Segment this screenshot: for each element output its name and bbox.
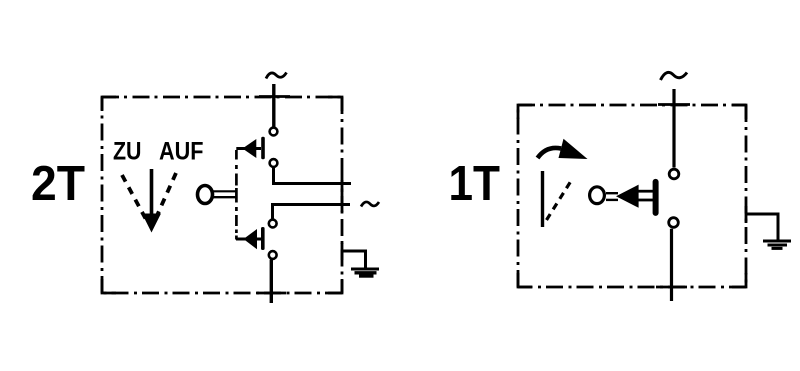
wire from bottom contact down 1T	[670, 229, 673, 301]
pushbutton knob	[198, 186, 213, 204]
border dash at top wire crossing	[259, 95, 290, 98]
wire from tilde to top contact	[272, 84, 275, 127]
rotation arrow head	[559, 139, 588, 159]
top switch actuator arm	[236, 147, 261, 150]
ground symbol 1T	[763, 241, 791, 248]
pushbutton knob 1T	[590, 187, 605, 204]
ground wire 2T	[342, 251, 366, 268]
border dash at ground wire crossing 1T	[745, 206, 748, 223]
actuator link (double line)	[638, 190, 653, 193]
top switch arrow head	[243, 139, 257, 158]
svg-text:ZU: ZU	[113, 138, 142, 166]
box 2T corner ticks	[102, 97, 342, 293]
actuator dash-dot link	[235, 150, 238, 240]
AC tilde top 2T	[266, 73, 287, 79]
actuator arrow head 1T	[616, 185, 639, 208]
pushbutton rod (double line)	[212, 190, 237, 192]
border dash at bottom wire crossing	[257, 292, 286, 295]
border dash at top wire crossing 1T	[658, 103, 690, 106]
enclosure box 2T (dash-dot)	[102, 97, 342, 293]
contact circle bottom 1T	[669, 218, 679, 228]
bottom switch arrow head	[244, 229, 258, 249]
contact circle C2	[270, 159, 278, 167]
contact circle C3	[269, 220, 277, 228]
bottom switch actuator arm	[236, 238, 261, 241]
wire from C3 to right terminal	[273, 205, 351, 219]
border dash at bottom wire crossing 1T	[656, 286, 687, 289]
AC tilde right 2T	[361, 202, 379, 207]
ground symbol 2T	[351, 269, 379, 276]
wire from C4 down through box	[270, 260, 273, 304]
wire from C2 to right terminal	[274, 168, 352, 184]
top switch bridge bar	[261, 137, 265, 159]
border dash at ground wire crossing	[341, 243, 344, 260]
wire from tilde to top contact 1T	[672, 89, 675, 168]
lever dashed position	[547, 179, 573, 221]
box 1T corner ticks	[518, 105, 746, 287]
pushbutton rod 1T (double line)	[606, 192, 618, 194]
AC tilde top 1T	[661, 72, 688, 80]
svg-text:AUF: AUF	[159, 138, 204, 166]
bottom switch bridge bar	[261, 227, 265, 250]
enclosure box 1T (dash-dot)	[518, 105, 746, 287]
contact circle top 1T	[669, 169, 679, 179]
solid down arrow	[142, 169, 161, 233]
rotation arrow arc	[538, 148, 562, 158]
ground wire 1T	[746, 214, 778, 240]
svg-text:2T: 2T	[31, 156, 85, 211]
dashed stroke right of V	[155, 173, 176, 220]
border dashes at wire crossings (right side)	[341, 175, 344, 192]
dashed stroke left of V	[122, 175, 146, 219]
contact circle C4	[269, 251, 277, 259]
svg-text:1T: 1T	[449, 156, 501, 211]
bridge bar 1T	[653, 179, 659, 216]
contact circle C1	[270, 128, 278, 136]
lever solid position	[541, 171, 544, 227]
